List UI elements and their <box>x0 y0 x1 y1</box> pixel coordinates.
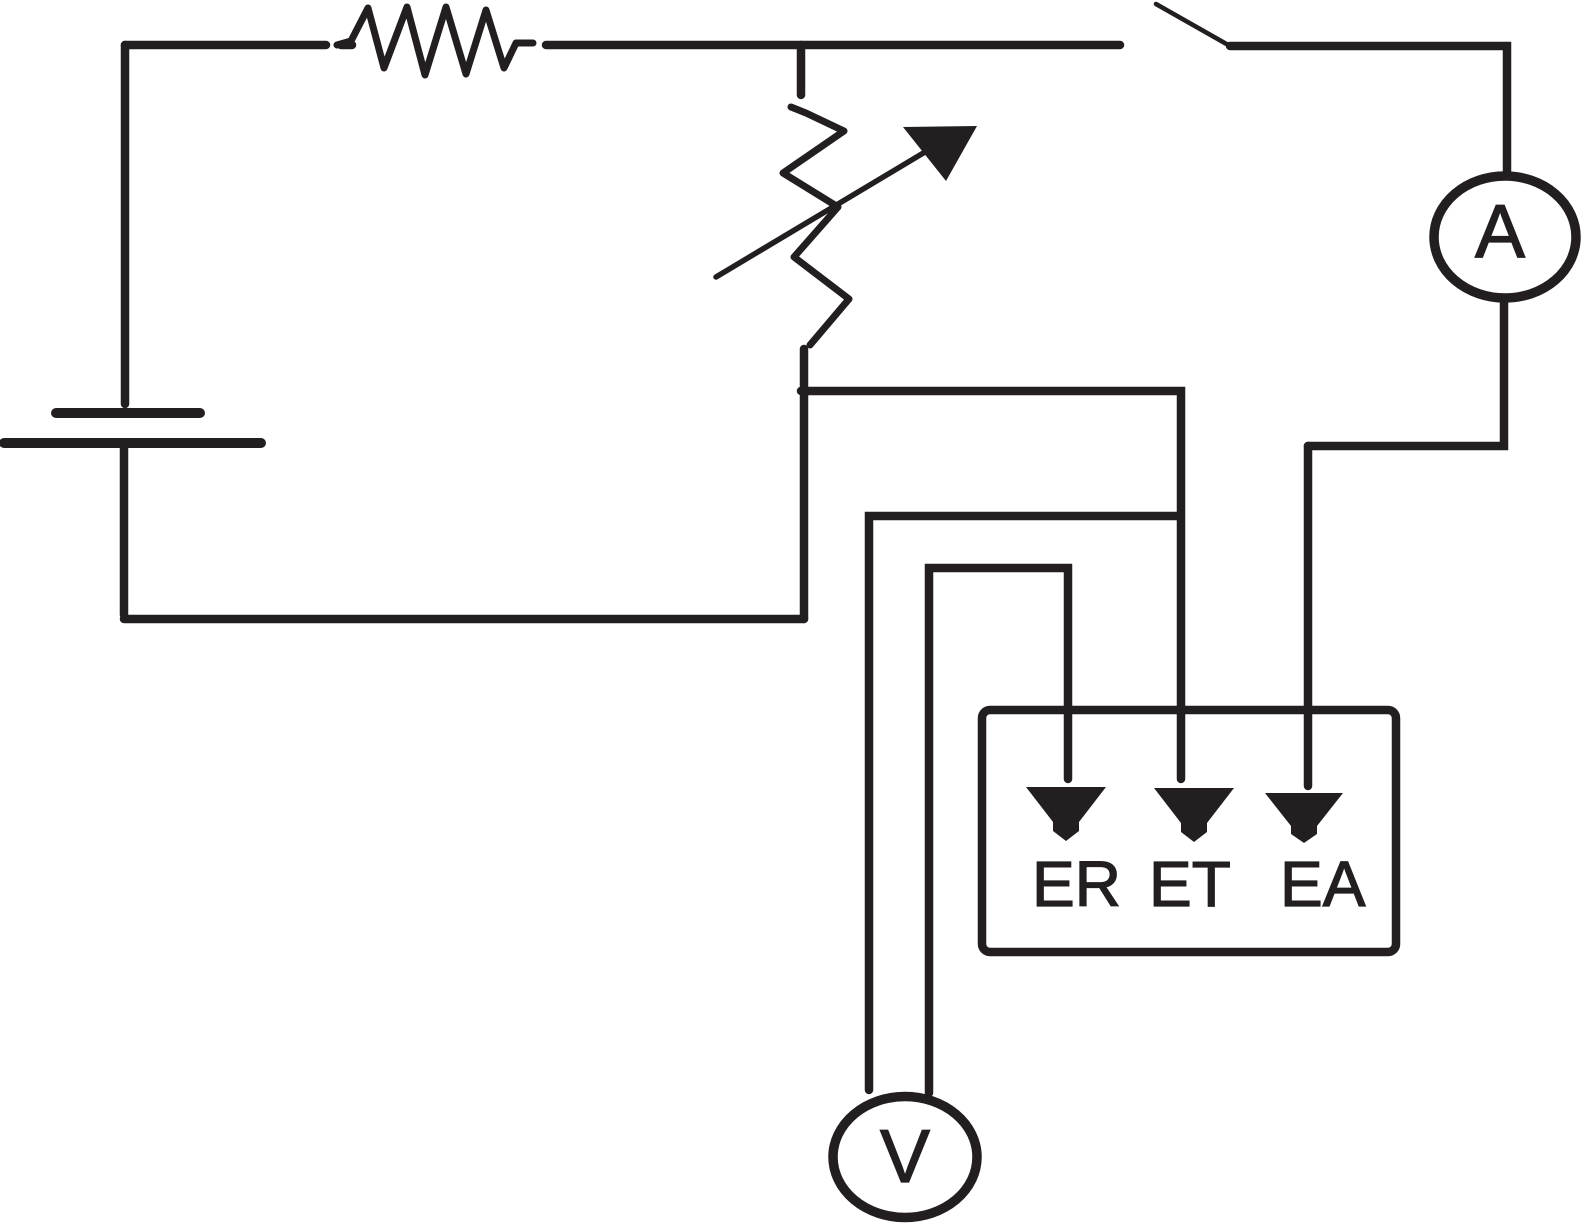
wire voltmeter right lead to ER drop <box>929 568 1068 1093</box>
wire top-right horizontal and down to ammeter <box>1230 46 1507 171</box>
svg-text:V: V <box>880 1114 930 1198</box>
terminal arrow ET <box>1154 788 1234 842</box>
recorder box <box>982 710 1396 952</box>
wire bottom rail up to rheostat <box>800 349 809 619</box>
svg-text:EA: EA <box>1280 848 1366 920</box>
wire ammeter bottom to EA branch corner <box>1308 303 1504 446</box>
switch S1 blade <box>1156 4 1230 46</box>
wire top-middle horizontal <box>546 41 1120 50</box>
battery plate short (top) <box>56 408 200 418</box>
terminal arrow ER <box>1026 787 1106 841</box>
wire battery to bottom rail <box>120 447 129 615</box>
terminal arrow EA <box>1265 793 1343 843</box>
rheostat arrowhead <box>903 126 977 181</box>
wire voltmeter left lead to ET tap <box>869 516 1177 1090</box>
svg-text:ER: ER <box>1032 848 1121 920</box>
rheostat arrow tail <box>716 152 925 277</box>
wire ET branch horizontal and drop <box>801 391 1181 779</box>
svg-text:ET: ET <box>1149 848 1231 920</box>
svg-text:A: A <box>1475 189 1525 273</box>
wire left vertical from top wire to battery <box>121 45 130 404</box>
battery plate long (bottom) <box>4 438 261 448</box>
wire EA vertical drop into box <box>1304 446 1313 786</box>
wire bottom rail <box>124 615 804 624</box>
wire top-left horizontal <box>125 41 352 50</box>
resistor R (zigzag) <box>337 7 533 75</box>
ammeter A circle <box>1434 176 1576 298</box>
voltmeter V circle <box>833 1097 977 1218</box>
rheostat zigzag <box>783 107 849 345</box>
rheostat top lead <box>797 45 806 95</box>
